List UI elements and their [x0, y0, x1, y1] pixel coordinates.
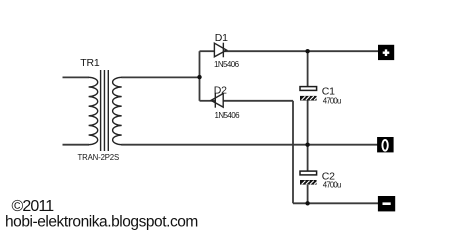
wire + rail: D1 cathode to + terminal	[223, 50, 378, 52]
wire C1 bottom lead	[307, 101, 309, 145]
primary winding	[89, 77, 98, 144]
wire - rail to minus terminal	[293, 202, 378, 204]
wire primary bottom lead	[63, 144, 90, 146]
transformer TR1	[89, 70, 122, 151]
diode D2	[211, 93, 223, 108]
wire C2 top lead	[307, 145, 309, 171]
svg-text:4700u: 4700u	[323, 96, 341, 105]
wire D2 cathode stub	[200, 100, 216, 102]
junction dot: - rail	[305, 201, 309, 205]
svg-text:TR1: TR1	[80, 57, 100, 69]
capacitor C1	[300, 87, 318, 101]
capacitor C2	[300, 171, 318, 185]
wire primary top lead	[63, 76, 90, 78]
svg-text:1N5406: 1N5406	[214, 60, 240, 69]
terminal 0	[377, 137, 394, 152]
wire C1 top lead	[307, 51, 309, 86]
wire C2 bottom lead	[307, 185, 309, 203]
svg-text:D2: D2	[214, 85, 227, 97]
svg-text:D1: D1	[215, 32, 228, 44]
core line 3	[107, 70, 109, 151]
terminal -	[378, 196, 395, 211]
junction dot: C1 top on + rail	[305, 49, 309, 53]
wire anode riser between D1 and D2	[199, 51, 201, 101]
wire secondary top lead to diode junction	[121, 76, 199, 78]
wire D2 anode to right riser	[223, 100, 293, 102]
svg-text:hobi-elektronika.blogspot.com: hobi-elektronika.blogspot.com	[5, 214, 198, 231]
svg-text:TRAN-2P2S: TRAN-2P2S	[78, 153, 120, 162]
secondary winding	[113, 77, 122, 144]
wire 0 rail: secondary bottom to 0 terminal	[121, 144, 377, 146]
wire D1 anode stub	[200, 50, 215, 52]
core line 1	[100, 70, 102, 151]
terminal +	[378, 45, 394, 60]
wire right riser down from D2	[292, 101, 294, 204]
diode D1	[214, 43, 226, 58]
junction dot: diode anode riser	[197, 75, 201, 79]
svg-text:4700u: 4700u	[323, 181, 341, 190]
svg-text:1N5406: 1N5406	[215, 111, 241, 120]
core line 2	[103, 70, 105, 151]
junction dot: 0 rail	[305, 143, 309, 147]
